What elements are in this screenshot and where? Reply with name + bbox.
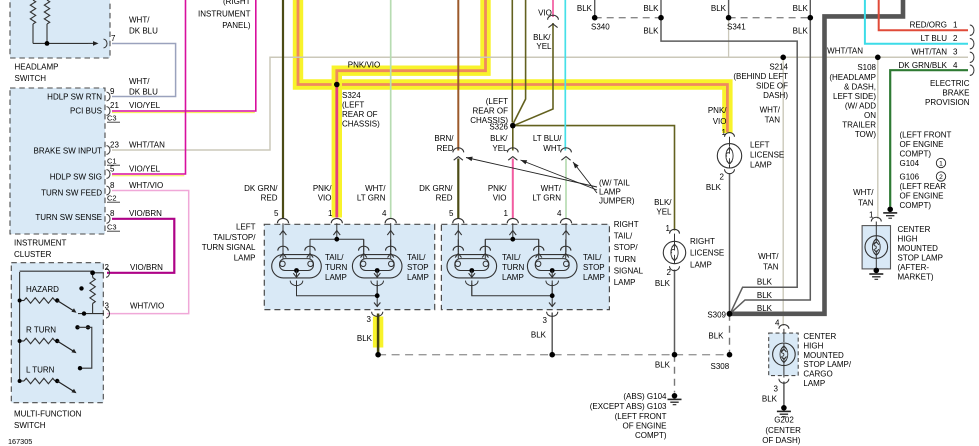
wire PNK/VIO: jumper to right tail lamp pin 1	[512, 159, 514, 219]
svg-text:BLK: BLK	[655, 279, 671, 288]
wire BLK: splice tick down from S341 left dot	[728, 18, 730, 58]
svg-text:3: 3	[953, 47, 958, 56]
wire BLK dashed: S309 to S308	[729, 314, 731, 355]
svg-text:LT BLU/: LT BLU/	[533, 134, 562, 143]
switch L TURN	[20, 380, 24, 382]
svg-text:WHT/: WHT/	[365, 184, 386, 193]
svg-text:(LEFT: (LEFT	[342, 101, 364, 110]
wire left lamp ground bus	[297, 281, 378, 296]
left tail/stop/turn signal lamp box	[264, 224, 434, 309]
svg-text:VIO/BRN: VIO/BRN	[130, 263, 163, 272]
pin connector instrument cluster y150	[107, 146, 111, 155]
svg-text:REAR OF: REAR OF	[342, 110, 378, 119]
svg-text:WHT/: WHT/	[129, 16, 150, 25]
wire WHT/TAN: cluster pin23 right, up, across page to pin 3 electric brake	[112, 57, 968, 150]
callout arrow to connector 3	[573, 162, 597, 193]
wire BLK: from S341 down to S309	[731, 18, 810, 313]
svg-text:WHT/: WHT/	[853, 188, 874, 197]
bulb right tail/stop lamp	[527, 255, 577, 278]
svg-text:VIO: VIO	[538, 9, 552, 18]
splice S309	[727, 311, 733, 317]
wire LT BLU: to electric brake pin 2	[865, 0, 968, 44]
svg-text:BLK/: BLK/	[654, 198, 672, 207]
svg-text:LAMP: LAMP	[803, 379, 825, 388]
svg-text:BLK/: BLK/	[490, 134, 508, 143]
svg-text:S214: S214	[769, 63, 788, 72]
wire VIO/BRN: cluster pin8 to multi-function switch pin2	[107, 219, 174, 273]
svg-text:COMPT): COMPT)	[900, 150, 932, 159]
wire PNK/VIO highlighted: S324 riser to top x485.5	[337, 0, 486, 85]
wire BLK: cargo lamp pin 3 to G202	[783, 382, 785, 406]
svg-text:(EXCEPT ABS) G103: (EXCEPT ABS) G103	[590, 402, 667, 411]
svg-text:LICENSE: LICENSE	[750, 150, 784, 159]
svg-text:MARKET): MARKET)	[898, 272, 934, 281]
lamp left license	[725, 133, 735, 137]
wire multi-function pin 2 internal	[93, 272, 104, 274]
svg-text:STOP/: STOP/	[614, 243, 639, 252]
svg-text:RED: RED	[261, 194, 278, 203]
wire DK GRN/RED: top to left tail lamp pin 5	[282, 0, 284, 218]
svg-text:TURN SW FEED: TURN SW FEED	[41, 189, 102, 198]
node license ground	[672, 352, 678, 358]
wire WHT/TAN: S108 down to aftermarket stop lamp pin 1	[877, 57, 879, 219]
wire WHT/LT GRN: jumper to right tail lamp pin 4	[565, 159, 567, 219]
svg-text:DASH): DASH)	[763, 91, 788, 100]
svg-text:TAN: TAN	[858, 199, 874, 208]
svg-text:BLK: BLK	[643, 4, 659, 13]
svg-text:OF DASH): OF DASH)	[762, 436, 801, 445]
svg-text:RED/ORG: RED/ORG	[910, 21, 947, 30]
svg-text:BLK: BLK	[793, 27, 809, 36]
bulb right tail/turn lamp	[447, 255, 497, 278]
svg-text:5: 5	[110, 165, 115, 174]
svg-text:& DASH,: & DASH,	[844, 83, 876, 92]
svg-text:BLK: BLK	[757, 304, 773, 313]
inline connector top PNK/VIO-BLK/YEL	[548, 15, 559, 20]
svg-text:JUMPER): JUMPER)	[599, 197, 635, 206]
svg-text:HIGH: HIGH	[803, 341, 823, 350]
wire BLK highlighted: left tail lamp ground	[373, 317, 383, 348]
svg-text:BLK: BLK	[531, 331, 547, 340]
svg-text:21: 21	[110, 101, 119, 110]
svg-text:DK GRN/: DK GRN/	[244, 184, 278, 193]
svg-text:BLK/: BLK/	[533, 33, 551, 42]
svg-text:9: 9	[110, 87, 115, 96]
svg-text:BRN/: BRN/	[434, 134, 454, 143]
wire PNK/VIO highlighted: from top x298 down, across y84.5 to left license lamp	[298, 0, 727, 133]
svg-text:BLK: BLK	[357, 334, 373, 343]
wire WHT/LT GRN: top to left tail lamp pin 4	[390, 0, 392, 218]
svg-text:2: 2	[667, 268, 672, 277]
bulb left tail/turn lamp	[272, 255, 322, 278]
svg-text:LAMP: LAMP	[599, 188, 621, 197]
svg-text:BLK: BLK	[655, 361, 671, 370]
svg-text:WHT/VIO: WHT/VIO	[129, 181, 163, 190]
wire BLK: S340 splice ticks	[594, 0, 596, 18]
multi-function switch inner frame	[20, 271, 93, 273]
svg-text:(BEHIND LEFT: (BEHIND LEFT	[733, 72, 788, 81]
node hazard contact	[79, 286, 83, 290]
splice S326	[510, 123, 516, 129]
wire PNK/VIO: top stub above inline connector	[552, 0, 554, 17]
wire right lamp ground bus	[472, 281, 552, 296]
svg-text:(AFTER-: (AFTER-	[898, 263, 930, 272]
splice S341 right dot	[808, 15, 814, 21]
svg-text:MULTI-FUNCTION: MULTI-FUNCTION	[14, 410, 82, 419]
pin connector instrument cluster y174	[107, 170, 111, 179]
svg-text:PANEL): PANEL)	[222, 21, 251, 30]
splice S341 left dot	[726, 15, 732, 21]
pin connector tail lamp x283	[277, 218, 288, 223]
pin connector tail lamp x566	[560, 218, 571, 223]
connector label underlines	[107, 121, 120, 123]
node right tail lamp ground	[549, 352, 555, 358]
splice S308	[727, 352, 733, 358]
pin connector tail lamp x336.8	[331, 218, 342, 223]
ground aftermarket stop lamp	[874, 268, 880, 274]
svg-text:BRAKE: BRAKE	[942, 89, 969, 98]
wire VIO/YEL: cluster pin5 HDLP SW SIG	[112, 175, 184, 177]
svg-text:WHT/: WHT/	[760, 106, 781, 115]
pin connector electric brake y70.2	[970, 65, 974, 75]
svg-text:LT GRN: LT GRN	[357, 194, 386, 203]
svg-text:BLK: BLK	[762, 395, 778, 404]
svg-text:CARGO: CARGO	[803, 370, 832, 379]
wire BLK: S340 splice dashed link	[595, 17, 661, 19]
svg-text:VIO/BRN: VIO/BRN	[129, 209, 162, 218]
wire BLK: right license lamp to ground junction	[674, 270, 676, 355]
wire DK GRN/BLK: electric brake pin 4 to ground G104	[890, 70, 968, 206]
pin connector electric brake y30.2	[970, 25, 974, 35]
svg-text:SIGNAL: SIGNAL	[614, 266, 644, 275]
wire multi-function pin 3 internal	[78, 313, 104, 315]
wire BLK: S341 splice dashed link	[729, 17, 811, 19]
svg-text:5: 5	[449, 209, 454, 218]
svg-text:167305: 167305	[8, 437, 32, 446]
svg-text:2: 2	[953, 34, 958, 43]
svg-text:PNK/VIO: PNK/VIO	[348, 61, 380, 70]
svg-text:YEL: YEL	[656, 208, 672, 217]
wire BLK: right tail lamp ground down	[551, 313, 553, 355]
marker circled 2	[936, 172, 945, 181]
wire BLK: S341 splice ticks	[728, 0, 730, 18]
switch R TURN	[20, 340, 24, 342]
svg-text:(HEADLAMP: (HEADLAMP	[829, 73, 876, 82]
svg-text:4: 4	[775, 319, 780, 328]
svg-text:7: 7	[111, 34, 116, 43]
svg-text:1: 1	[869, 211, 874, 220]
svg-text:TAIL/: TAIL/	[407, 253, 426, 262]
svg-text:CENTER: CENTER	[898, 225, 931, 234]
svg-text:VIO: VIO	[713, 117, 727, 126]
svg-text:23: 23	[110, 141, 119, 150]
svg-text:(LEFT FRONT: (LEFT FRONT	[900, 131, 952, 140]
svg-text:HIGH: HIGH	[898, 234, 918, 243]
svg-text:SWITCH: SWITCH	[14, 421, 46, 430]
svg-text:LICENSE: LICENSE	[690, 249, 724, 258]
svg-text:WHT/: WHT/	[129, 77, 150, 86]
svg-text:BLK: BLK	[793, 4, 809, 13]
svg-text:C3: C3	[107, 223, 117, 232]
svg-text:RED: RED	[437, 144, 454, 153]
bulb left tail/stop lamp	[352, 255, 402, 278]
svg-text:(W/ ADD: (W/ ADD	[845, 102, 876, 111]
svg-text:TOW): TOW)	[855, 130, 877, 139]
inline connector x566	[561, 148, 572, 153]
headlamp switch box	[10, 0, 110, 58]
svg-text:LAMP: LAMP	[614, 278, 636, 287]
svg-text:LAMP: LAMP	[750, 160, 772, 169]
pin connector electric brake y43.7	[970, 39, 974, 49]
inline connector x458.3	[453, 148, 464, 153]
svg-text:1: 1	[666, 224, 671, 233]
svg-text:OF ENGINE: OF ENGINE	[900, 192, 944, 201]
svg-text:WHT/TAN: WHT/TAN	[911, 47, 947, 56]
svg-text:WHT/: WHT/	[541, 184, 562, 193]
wire WHT/VIO: cluster pin8 to multi-function switch pin3	[107, 191, 189, 314]
svg-text:BLK: BLK	[757, 278, 773, 287]
svg-text:(W/ TAIL: (W/ TAIL	[599, 179, 630, 188]
svg-text:LEFT: LEFT	[236, 223, 256, 232]
svg-text:TURN SW SENSE: TURN SW SENSE	[35, 213, 102, 222]
pin connector instrument cluster y218.8	[107, 214, 111, 223]
splice S340 left dot	[592, 15, 598, 21]
svg-text:4: 4	[382, 209, 387, 218]
svg-text:REAR OF: REAR OF	[472, 107, 508, 116]
svg-text:BLK: BLK	[757, 291, 773, 300]
svg-text:HDLP SW SIG: HDLP SW SIG	[50, 173, 102, 182]
multi-function switch box	[11, 263, 103, 403]
svg-text:BLK: BLK	[708, 332, 724, 341]
svg-text:TAIL/: TAIL/	[583, 253, 602, 262]
svg-text:STOP LAMP/: STOP LAMP/	[803, 360, 852, 369]
svg-text:LAMP: LAMP	[234, 254, 256, 263]
svg-text:1: 1	[722, 128, 727, 137]
resistor headlamp switch 2	[44, 0, 49, 24]
resistor hazard flasher	[90, 278, 95, 304]
svg-text:4: 4	[557, 209, 562, 218]
svg-text:CLUSTER: CLUSTER	[14, 250, 52, 259]
svg-text:PCI BUS: PCI BUS	[70, 107, 102, 116]
svg-text:ELECTRIC: ELECTRIC	[930, 79, 970, 88]
splice S340 right dot	[658, 15, 664, 21]
node left tail lamp ground	[375, 352, 381, 358]
svg-text:3: 3	[367, 315, 372, 324]
wire BLK dashed: down to G104/G103	[674, 355, 676, 393]
pin connectors multi-function switch	[106, 268, 110, 277]
svg-text:TAN: TAN	[765, 115, 781, 124]
svg-text:S324: S324	[342, 91, 361, 100]
svg-text:G106: G106	[900, 173, 920, 182]
svg-text:OF ENGINE: OF ENGINE	[900, 140, 944, 149]
svg-text:TAIL/: TAIL/	[502, 253, 521, 262]
splice S214	[780, 55, 786, 61]
svg-text:BLK: BLK	[706, 183, 722, 192]
wire BLK/YEL: S326 down to inline connector (right lamp pin1 feed)	[512, 126, 514, 151]
svg-text:STOP LAMP: STOP LAMP	[898, 253, 944, 262]
svg-text:YEL: YEL	[536, 42, 552, 51]
wire BLK dashed: common ground run	[378, 354, 729, 356]
svg-text:3: 3	[105, 302, 110, 311]
svg-text:(LEFT: (LEFT	[486, 97, 508, 106]
center high mounted stop lamp / cargo lamp box	[769, 333, 799, 376]
svg-text:PNK/: PNK/	[488, 184, 507, 193]
svg-text:8: 8	[110, 209, 115, 218]
svg-text:(RIGHT: (RIGHT	[223, 0, 251, 6]
svg-text:8: 8	[110, 181, 115, 190]
svg-text:COMPT): COMPT)	[900, 201, 932, 210]
svg-text:WHT/TAN: WHT/TAN	[827, 47, 863, 56]
switch HAZARD	[20, 300, 24, 302]
pin 7 headlamp switch	[88, 42, 96, 44]
svg-text:OF ENGINE: OF ENGINE	[622, 422, 666, 431]
svg-text:TURN: TURN	[614, 255, 636, 264]
svg-text:2: 2	[105, 263, 110, 272]
svg-text:VIO: VIO	[493, 194, 507, 203]
splice S324	[334, 82, 340, 88]
svg-text:BLK: BLK	[643, 27, 659, 36]
svg-text:1: 1	[939, 160, 943, 167]
wire headlamp switch output	[33, 42, 88, 44]
svg-text:RIGHT: RIGHT	[690, 237, 715, 246]
wire BLK/YEL: three chassis wires converging to S326	[511, 0, 513, 123]
svg-text:RED: RED	[436, 194, 453, 203]
svg-text:RIGHT: RIGHT	[614, 220, 639, 229]
svg-text:DK BLU: DK BLU	[129, 27, 158, 36]
right tail/stop/turn signal lamp box	[441, 224, 609, 309]
center high mounted stop lamp (aftermarket) box	[862, 226, 890, 269]
svg-text:TAN: TAN	[763, 263, 779, 272]
svg-text:CHASSIS): CHASSIS)	[342, 120, 380, 129]
svg-text:STOP: STOP	[583, 263, 605, 272]
splice S108	[875, 55, 881, 61]
svg-text:(ABS) G104: (ABS) G104	[623, 392, 667, 401]
svg-text:INSTRUMENT: INSTRUMENT	[198, 10, 251, 19]
svg-text:S340: S340	[591, 23, 610, 32]
wire BLK thick ground bus: top right to S309	[730, 0, 903, 314]
lamp right license	[670, 229, 680, 233]
svg-text:VIO/YEL: VIO/YEL	[129, 101, 161, 110]
svg-text:LAMP: LAMP	[690, 260, 712, 269]
svg-text:PNK/: PNK/	[708, 106, 727, 115]
wire BLK: from S340 down around to S309	[661, 18, 797, 312]
svg-text:L TURN: L TURN	[26, 366, 55, 375]
pin connector instrument cluster y190.5	[107, 186, 111, 195]
svg-text:1: 1	[504, 209, 509, 218]
svg-text:TURN SIGNAL: TURN SIGNAL	[202, 243, 256, 252]
svg-text:3: 3	[543, 316, 548, 325]
svg-text:VIO/YEL: VIO/YEL	[129, 165, 161, 174]
svg-text:MOUNTED: MOUNTED	[803, 351, 844, 360]
wire RED/ORG: to electric brake pin 1	[879, 0, 968, 30]
svg-text:DK GRN/BLK: DK GRN/BLK	[899, 61, 948, 70]
marker circled 1	[936, 158, 945, 167]
svg-text:2: 2	[720, 173, 725, 182]
wire VIO/YEL: cluster pin21 PCI BUS	[112, 112, 255, 114]
node right lamp T junction	[485, 238, 538, 240]
svg-text:COMPT): COMPT)	[635, 431, 667, 440]
svg-text:2: 2	[939, 174, 943, 181]
svg-text:DK BLU: DK BLU	[129, 88, 158, 97]
svg-text:TRAILER: TRAILER	[842, 121, 876, 130]
svg-text:SIDE OF: SIDE OF	[756, 82, 788, 91]
svg-text:G202: G202	[774, 416, 794, 425]
wire PNK/VIO highlighted: S324 down to left tail lamp pin 1	[332, 85, 342, 218]
svg-text:INSTRUMENT: INSTRUMENT	[14, 239, 67, 248]
svg-text:LEFT SIDE): LEFT SIDE)	[833, 92, 876, 101]
svg-text:HEADLAMP: HEADLAMP	[15, 63, 59, 72]
instrument cluster box	[10, 88, 105, 234]
svg-text:4: 4	[953, 61, 958, 70]
svg-text:LEFT: LEFT	[750, 140, 770, 149]
pin connector tail lamp x512.8	[507, 218, 518, 223]
svg-text:PNK/: PNK/	[313, 184, 332, 193]
wire BLK: left license lamp to S309	[729, 173, 731, 312]
ground G104 (right)	[887, 207, 893, 213]
pin connector electric brake y57.3	[970, 52, 974, 62]
svg-text:LAMP: LAMP	[325, 273, 347, 282]
svg-text:(CENTER: (CENTER	[765, 426, 801, 435]
svg-text:HDLP SW RTN: HDLP SW RTN	[47, 93, 102, 102]
svg-text:S309: S309	[707, 311, 726, 320]
svg-text:3: 3	[774, 385, 779, 394]
svg-text:LAMP: LAMP	[407, 273, 429, 282]
svg-text:WHT: WHT	[543, 144, 561, 153]
wire DK GRN/RED: jumper to right tail lamp pin 5	[457, 159, 459, 219]
svg-text:WHT/VIO: WHT/VIO	[130, 302, 164, 311]
svg-text:TAIL/STOP/: TAIL/STOP/	[213, 233, 256, 242]
svg-text:WHT/: WHT/	[758, 252, 779, 261]
lamp center high mounted stop (aftermarket)	[871, 217, 881, 221]
svg-text:1: 1	[953, 21, 958, 30]
svg-text:CENTER: CENTER	[803, 332, 836, 341]
svg-text:TAIL/: TAIL/	[325, 253, 344, 262]
svg-text:S341: S341	[727, 23, 746, 32]
svg-text:TURN: TURN	[502, 263, 524, 272]
wire WHT/TAN: S214 down to cargo lamp pin 4	[782, 57, 784, 326]
node headlamp switch junction	[45, 41, 50, 46]
ground G104/G103 (bottom)	[672, 393, 678, 399]
resistor headlamp switch 1	[30, 0, 35, 24]
pin connector instrument cluster y96.5	[107, 92, 111, 101]
svg-text:SWITCH: SWITCH	[15, 74, 47, 83]
callout arrow to connector 2	[521, 160, 598, 190]
svg-text:WHT/TAN: WHT/TAN	[129, 141, 165, 150]
svg-text:C2: C2	[107, 194, 117, 203]
node left lamp T junction	[310, 238, 364, 240]
svg-text:S308: S308	[711, 362, 730, 371]
svg-text:(LEFT FRONT: (LEFT FRONT	[615, 412, 667, 421]
pin connector instrument cluster y111	[107, 107, 111, 116]
svg-text:5: 5	[274, 209, 279, 218]
svg-text:LT BLU: LT BLU	[921, 34, 948, 43]
svg-text:STOP: STOP	[407, 263, 429, 272]
svg-text:TAIL/: TAIL/	[614, 232, 633, 241]
svg-text:YEL: YEL	[492, 144, 508, 153]
svg-text:S108: S108	[857, 63, 876, 72]
svg-text:G104: G104	[900, 159, 920, 168]
svg-text:BLK: BLK	[711, 4, 727, 13]
svg-text:VIO: VIO	[318, 194, 332, 203]
svg-text:PROVISION: PROVISION	[925, 98, 970, 107]
pin connector tail lamp x458.3	[453, 218, 464, 223]
svg-text:LT GRN: LT GRN	[532, 194, 561, 203]
wire LT BLU/WHT: top to inline connector	[564, 0, 566, 151]
node turn feed bus	[75, 325, 79, 329]
callout arrow to connector 1	[466, 158, 597, 188]
svg-text:C3: C3	[107, 114, 117, 123]
wire WHT/DK BLU: headlamp switch pin7 to cluster pin9	[112, 44, 176, 97]
